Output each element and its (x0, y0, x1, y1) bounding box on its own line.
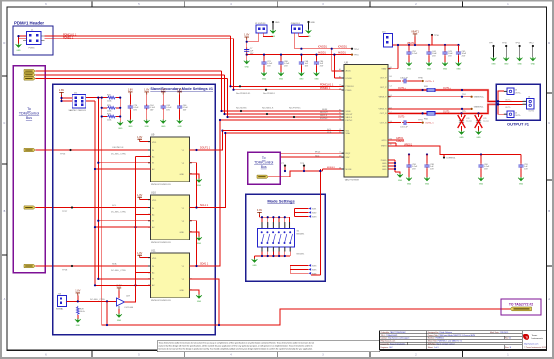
svg-text:TP26: TP26 (60, 153, 66, 155)
svg-text:1.8V: 1.8V (59, 89, 64, 92)
svg-text:VREG1: VREG1 (404, 143, 413, 146)
svg-text:100k: 100k (107, 100, 111, 102)
ground C58 (406, 169, 412, 186)
junction (220, 110, 222, 112)
svg-text:D: D (548, 42, 550, 45)
inverter U27 (117, 295, 135, 309)
net callout FSYNC (289, 107, 301, 119)
svg-text:GND: GND (180, 290, 185, 292)
svg-text:SCL1 1: SCL1 1 (200, 204, 209, 207)
wire SDA1 to U8 (225, 132, 344, 134)
wire S1 right taps (295, 207, 318, 218)
svg-text:© Texas Instruments 2019: © Texas Instruments 2019 (524, 346, 546, 349)
wire U9 out (190, 131, 223, 151)
connector J1 (23, 30, 45, 50)
svg-text:100k: 100k (107, 119, 111, 121)
cap C21 (261, 54, 273, 68)
wire U9 pin4 (94, 168, 150, 170)
svg-text:TID #: TIDA-050021: TID #: TIDA-050021 (381, 334, 398, 337)
svg-text:AVDD: AVDD (346, 70, 352, 73)
wire SDIN (36, 70, 222, 72)
power flag U11 (137, 252, 150, 258)
power flag VBAT (411, 31, 419, 37)
junction (119, 97, 121, 99)
box2 title (254, 156, 273, 169)
svg-text:SIGNAL: SIGNAL (56, 308, 64, 311)
test point GND J3 (307, 21, 315, 30)
svg-text:SBCLK: SBCLK (346, 117, 353, 119)
svg-text:OUT_P: OUT_P (380, 77, 387, 79)
junction (97, 97, 99, 99)
wire AVDD1 rail (318, 51, 352, 78)
junction (60, 97, 62, 99)
wire resistor right bus (116, 98, 120, 122)
svg-text:OUT1+ 1: OUT1+ 1 (425, 81, 435, 83)
junction (232, 89, 234, 91)
svg-text:10.0k: 10.0k (80, 311, 85, 313)
power flag S1 (257, 209, 262, 215)
cap C48 (299, 54, 309, 68)
capacitor C31 (388, 120, 408, 128)
PDM1 header group box (13, 26, 53, 55)
svg-text:TO TAS2772 #2: TO TAS2772 #2 (509, 302, 533, 306)
svg-text:J2 IOVDD1: J2 IOVDD1 (255, 23, 266, 25)
wire SDA to U11 (36, 265, 151, 267)
junction (119, 107, 121, 109)
wire U11 out (190, 120, 221, 267)
svg-text:AVDD1: AVDD1 (338, 51, 346, 54)
cap C38 (424, 155, 434, 171)
wire VREG (388, 140, 521, 155)
net callout PDMD1 (263, 89, 276, 96)
junction (60, 100, 62, 102)
wire PDMCLK1 (45, 35, 231, 37)
junction (224, 132, 226, 134)
tag SBCLK (24, 73, 35, 76)
wire U11 pin4 (94, 284, 150, 286)
wire VSNS_P (388, 94, 485, 99)
tag SCL (24, 206, 35, 209)
svg-text:PGND: PGND (381, 160, 387, 162)
cap C86 (278, 54, 290, 68)
svg-text:FSYNC: FSYNC (346, 120, 353, 122)
cap C59 (518, 155, 528, 171)
border zone ticks top (92, 1, 462, 7)
svg-text:SDZ: SDZ (315, 155, 320, 157)
ground S1 (252, 259, 258, 268)
svg-text:OUT_P: OUT_P (380, 87, 387, 89)
slave mode settings box (53, 84, 215, 335)
svg-text:MODE1: MODE1 (297, 234, 306, 236)
ground J3 (306, 30, 312, 39)
svg-text:VREG: VREG (381, 145, 387, 147)
ground U27 (116, 309, 122, 322)
svg-text:PDM1: PDM1 (29, 48, 36, 50)
svg-text:C30 1uF: C30 1uF (400, 77, 408, 79)
resistor R23 (107, 105, 116, 113)
wire S1 lower taps (290, 264, 317, 275)
svg-text:VBMON1-: VBMON1- (474, 107, 484, 109)
power flag C66 (177, 89, 182, 95)
wire OSC to U9 (36, 149, 151, 151)
svg-text:Bus: Bus (261, 165, 267, 169)
svg-text:SDA: SDA (346, 132, 351, 135)
net callout PDMCLK1 (236, 85, 251, 95)
wire SBCLK (36, 74, 225, 76)
svg-text:VBAT: VBAT (381, 68, 387, 71)
wire mode vertical (311, 169, 321, 275)
svg-text:1.8V: 1.8V (244, 34, 249, 37)
ground C45 (456, 56, 462, 71)
svg-text:Rev: A: Rev: A (505, 337, 511, 340)
svg-text:Sheet: 1 of 3: Sheet: 1 of 3 (428, 346, 439, 349)
ground C7 (244, 58, 250, 69)
svg-text:OUTPUT #1: OUTPUT #1 (507, 122, 530, 127)
wire U10 out (190, 133, 226, 209)
ground GND of J1 (16, 44, 22, 53)
svg-text:OUT1: OUT1 (529, 110, 535, 112)
svg-text:B4: B4 (390, 76, 392, 78)
svg-text:3.3V: 3.3V (257, 209, 262, 212)
wire MODE to U8 (323, 167, 345, 171)
test point TP9 (489, 43, 495, 57)
junction (101, 115, 103, 117)
ground C29 (476, 126, 482, 139)
test point TP11 (515, 43, 521, 57)
svg-text:A1: A1 (339, 68, 341, 71)
wire IRQ tag (269, 171, 323, 177)
wire SDIN drop (222, 71, 345, 111)
svg-text:Designed for: Public Release: Designed for: Public Release (428, 331, 452, 334)
svg-text:F1: F1 (339, 112, 341, 114)
ground C86 (278, 66, 284, 81)
svg-text:VBMON1+: VBMON1+ (474, 97, 485, 99)
svg-text:1.8V: 1.8V (137, 252, 142, 255)
power flag U9 (137, 136, 150, 142)
resistor R28 (76, 306, 84, 315)
svg-text:TP28: TP28 (62, 269, 68, 271)
svg-text:1.8V: 1.8V (137, 194, 142, 197)
U11 pin stubs (148, 258, 192, 290)
wire J12 out (67, 296, 117, 303)
svg-text:no pop: no pop (483, 120, 489, 122)
svg-text:GND: GND (382, 163, 387, 165)
svg-text:C: C (3, 122, 5, 125)
net callout SCL (62, 206, 73, 212)
svg-text:SVN Rev: Not in version contro: SVN Rev: Not in version control (428, 342, 455, 345)
svg-text:Http://www.ti.com: Http://www.ti.com (381, 339, 396, 342)
switch S1 (258, 228, 306, 247)
cap C84 (314, 54, 324, 68)
U8 pin stubs left (342, 71, 345, 169)
wire VBAT rail (388, 37, 460, 69)
svg-text:IOVDD1: IOVDD1 (338, 46, 348, 49)
svg-text:OUT1-: OUT1- (443, 110, 450, 113)
wire SCL1 link (223, 130, 226, 132)
header J10 (382, 31, 393, 47)
svg-text:GPIO: GPIO (381, 140, 386, 142)
svg-text:Texas: Texas (532, 335, 539, 337)
test point TP14 (351, 48, 360, 51)
wire 1.8V rail (246, 40, 335, 56)
cap C76 (128, 95, 140, 112)
test point GND J2 (272, 21, 280, 30)
svg-text:VSNS_P: VSNS_P (379, 97, 388, 99)
wire J12 branch down (106, 301, 108, 325)
wire U10 out2 (190, 221, 197, 266)
svg-text:1.8V: 1.8V (128, 89, 133, 92)
disclaimer box (157, 341, 380, 352)
svg-text:VDD: VDD (152, 258, 157, 260)
svg-text:licensors do not warrant that: licensors do not warrant that the design… (159, 347, 314, 350)
header J2 (255, 23, 270, 42)
cap C60 (478, 155, 490, 171)
svg-text:GND: GND (180, 174, 185, 176)
svg-text:PDMCLK: PDMCLK (346, 86, 355, 88)
svg-text:IRQZ: IRQZ (315, 151, 321, 153)
svg-text:K1: K1 (339, 132, 341, 134)
svg-text:H1: H1 (339, 118, 341, 120)
wire SCL1 to U8 (225, 130, 344, 132)
cap C66 (177, 95, 189, 112)
cap C43 (442, 45, 453, 58)
svg-text:SN74LVC2G241DCU: SN74LVC2G241DCU (151, 184, 171, 186)
svg-text:Net-SDIN1: Net-SDIN1 (236, 107, 247, 110)
header J3 (291, 22, 306, 49)
ferrite bead FB4 (422, 110, 480, 120)
wire U9 gnd (190, 174, 202, 187)
svg-text:GND: GND (275, 22, 280, 24)
svg-text:Orderable: TAS2772EVM-MIC: Orderable: TAS2772EVM-MIC (381, 331, 407, 334)
wire J11 left pins (62, 95, 73, 101)
net callout SDIN (236, 107, 247, 113)
svg-text:N1: N1 (339, 167, 341, 169)
power flag C64 (144, 89, 149, 95)
svg-text:SDOUT: SDOUT (346, 114, 354, 116)
wire VSNS_N (388, 107, 484, 113)
capacitor C29 DNP (475, 113, 489, 128)
tag SDA (24, 264, 35, 267)
test point TP10 (502, 43, 508, 57)
svg-text:D: D (3, 42, 5, 45)
svg-text:VDD: VDD (152, 200, 157, 202)
mode settings box (246, 194, 325, 281)
svg-text:Instruments: Instruments (532, 337, 544, 340)
wire U9 DC-SEL (111, 154, 150, 157)
svg-text:Contact: http://www.ti.com/sup: Contact: http://www.ti.com/support (381, 337, 410, 340)
junction (223, 113, 225, 115)
svg-text:Net-SBCLK: Net-SBCLK (262, 107, 274, 110)
svg-text:M1: M1 (339, 156, 342, 158)
svg-text:C4: C4 (390, 85, 392, 87)
svg-text:L1: L1 (339, 152, 341, 154)
cap C7 (244, 47, 254, 57)
amplifier U8 (339, 60, 392, 181)
tag SDIN (24, 70, 35, 73)
svg-text:VSNS_N: VSNS_N (378, 109, 387, 111)
svg-text:SBCLK: SBCLK (320, 115, 328, 117)
svg-text:OUT_N: OUT_N (380, 113, 387, 115)
wire J11 right pins (86, 98, 108, 101)
svg-text:100k: 100k (107, 111, 111, 113)
svg-text:Net-PDMCLK1: Net-PDMCLK1 (236, 92, 251, 95)
ground C66 (177, 110, 183, 128)
op-amp U11 (150, 249, 189, 302)
wire IOVDD1 rail (294, 46, 352, 71)
capacitor C30 (400, 77, 408, 83)
svg-text:DC-SEL_CTRL: DC-SEL_CTRL (90, 299, 106, 301)
wire output splits (497, 91, 523, 114)
svg-text:MODE1: MODE1 (327, 167, 336, 169)
svg-text:OUT1- 1: OUT1- 1 (425, 123, 434, 125)
svg-text:FSYNC: FSYNC (320, 118, 328, 120)
test point DVREG (443, 155, 456, 160)
connector J6out (523, 97, 535, 113)
ground TP10 (503, 57, 509, 66)
title block text left (381, 331, 410, 349)
tag OSC (24, 148, 35, 151)
wire SDOUT row (220, 119, 344, 121)
wire SDZ to U8 (281, 155, 344, 157)
svg-text:B1: B1 (339, 76, 341, 78)
svg-text:D1: D1 (339, 88, 341, 90)
svg-text:Texas Instruments and/or its l: Texas Instruments and/or its licensors d… (159, 341, 315, 344)
svg-text:OUT1+: OUT1+ (398, 87, 406, 90)
TDM control bus box 2 (248, 152, 281, 184)
U8 pin stubs right (388, 69, 391, 169)
svg-text:warrant that this design will: warrant that this design will meet the s… (159, 344, 313, 347)
border zone ticks right (546, 93, 552, 266)
TAS2772 no2 port box (501, 299, 541, 315)
junction (101, 97, 103, 99)
svg-text:GND: GND (382, 169, 387, 171)
net callout OSC (60, 149, 72, 155)
svg-text:VDD: VDD (152, 142, 157, 144)
wire U10 pin3 (97, 220, 150, 222)
svg-text:TAS2772YBGR: TAS2772YBGR (345, 179, 360, 182)
wire FSYNC drop (228, 79, 345, 118)
svg-text:Mod. Date: 7/31/2019: Mod. Date: 7/31/2019 (490, 331, 508, 334)
wire S1 bottom bus (255, 247, 306, 259)
net callout SBCLK (262, 107, 274, 116)
border zone ticks bottom (92, 350, 462, 357)
op-amp U9 (150, 133, 189, 186)
U9 pin stubs (148, 142, 192, 174)
ground C84 (314, 66, 320, 81)
svg-text:VBAT1: VBAT1 (407, 42, 415, 45)
svg-text:no pop: no pop (466, 120, 472, 122)
wire to TAS2772 no2 (102, 309, 510, 326)
tag IRQ (257, 175, 268, 178)
connector J12 (56, 293, 67, 310)
svg-text:DC-SEL_CTRL: DC-SEL_CTRL (111, 212, 127, 214)
svg-text:U8: U8 (345, 60, 349, 64)
power flag 1.8V C7 (244, 34, 249, 40)
output box (496, 84, 540, 120)
svg-text:Number: PDM8501: Number: PDM8501 (428, 337, 444, 340)
wire U11 DC-SEL (111, 270, 150, 273)
wire U10 DC-SEL (111, 212, 150, 215)
svg-text:SDOUT: SDOUT (320, 112, 328, 114)
svg-text:DC-SEL_CTRL: DC-SEL_CTRL (111, 270, 127, 272)
ground C48 (299, 66, 305, 81)
test point TP12 (529, 43, 535, 57)
ground C28 (459, 126, 465, 139)
svg-text:DVREG1: DVREG1 (447, 158, 457, 160)
svg-text:IOVDD: IOVDD (346, 78, 353, 80)
U10 pin stubs (148, 200, 192, 232)
svg-text:Drawn By: Texas Instruments: Drawn By: Texas Instruments (381, 342, 406, 345)
wire SCL to U10 (36, 207, 151, 209)
svg-text:PDMD: PDMD (346, 90, 352, 92)
svg-text:SDA: SDA (327, 131, 332, 134)
wire PDMD1 (45, 38, 234, 40)
power flag J12 (75, 290, 80, 296)
power flag C65 (161, 89, 166, 95)
junction (101, 107, 103, 109)
svg-text:Engineer: SLP: Engineer: SLP (381, 346, 394, 349)
wire OUT_P sense (388, 80, 401, 82)
svg-text:Bus: Bus (26, 116, 32, 120)
cap C65 (161, 95, 173, 112)
wire PDMCLK1 drop (231, 36, 345, 86)
wire SBCLK drop (225, 75, 345, 114)
svg-text:OUT1+: OUT1+ (443, 87, 451, 90)
svg-text:PDMD1 1: PDMD1 1 (63, 36, 74, 39)
svg-text:Net-FSYNC: Net-FSYNC (289, 107, 301, 110)
svg-text:GND: GND (180, 232, 185, 234)
wire resistor left taps (102, 108, 107, 117)
ground U8 (397, 174, 403, 183)
title block text right (428, 331, 512, 349)
wire OUT1+ heavy (388, 87, 498, 101)
svg-text:TI: TI (526, 335, 529, 339)
svg-text:DC-SEL_CTRL: DC-SEL_CTRL (111, 154, 127, 156)
connector J4out (504, 111, 521, 117)
junction (226, 116, 228, 118)
ground TP12 (530, 57, 536, 66)
ground C21 (261, 66, 267, 81)
svg-text:DOUT1 1: DOUT1 1 (200, 147, 211, 150)
junction (229, 85, 231, 87)
svg-text:MODE: MODE (346, 169, 353, 171)
svg-text:SDIN: SDIN (346, 111, 351, 113)
svg-text:SN74LVC2G241DCU: SN74LVC2G241DCU (151, 300, 171, 302)
svg-text:0.1uF: 0.1uF (412, 53, 418, 55)
test point TP7 (280, 163, 286, 172)
wire U10 pin4 (94, 226, 150, 228)
svg-text:Size: B: Size: B (505, 347, 512, 349)
border zone ticks left (2, 76, 7, 255)
svg-text:SDIN: SDIN (322, 109, 328, 111)
svg-text:Mode Settings: Mode Settings (267, 199, 295, 204)
wire U10 gnd (190, 232, 202, 245)
svg-text:3.3V: 3.3V (116, 285, 121, 288)
wire FSYNC (36, 78, 228, 80)
cap C44 (426, 45, 437, 58)
net callout SDA (62, 265, 73, 271)
svg-text:PDM#1 Header: PDM#1 Header (14, 21, 44, 26)
svg-text:GND: GND (311, 22, 316, 24)
svg-text:SDA1 1: SDA1 1 (200, 263, 209, 266)
svg-text:MODE1: MODE1 (297, 254, 306, 256)
svg-text:http://www.ti.com: http://www.ti.com (524, 343, 539, 346)
resistor R22 (107, 95, 116, 103)
svg-text:GND: GND (382, 166, 387, 168)
ground C60 (478, 169, 484, 186)
wire U9 out2 (190, 163, 197, 208)
ground TP9 (491, 57, 497, 66)
